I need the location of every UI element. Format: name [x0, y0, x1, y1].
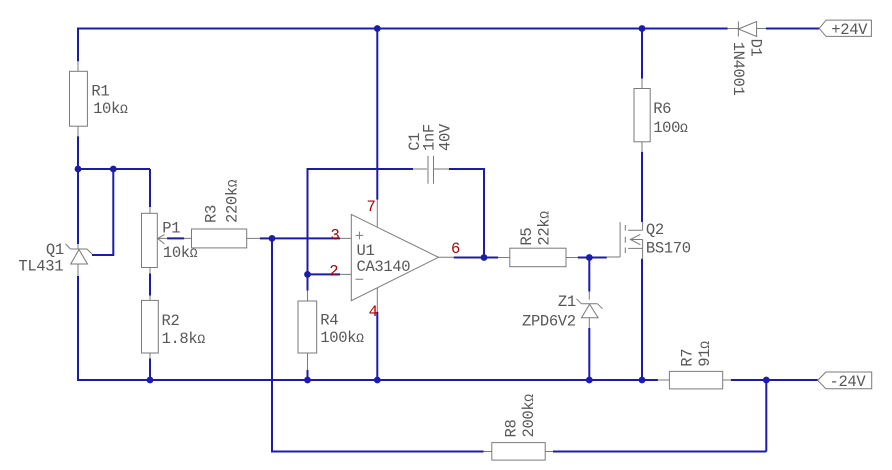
node pin4 bottom [374, 377, 381, 384]
svg-text:ZPD6V2: ZPD6V2 [522, 312, 576, 330]
node source bottom [639, 377, 646, 384]
svg-text:10kΩ: 10kΩ [163, 244, 198, 262]
svg-text:1N4001: 1N4001 [729, 42, 747, 96]
svg-text:Q1: Q1 [46, 241, 64, 259]
svg-text:-24V: -24V [830, 373, 867, 391]
node R3/pin3/R8 [269, 235, 276, 242]
wire source to bottom rail [641, 259, 643, 380]
node zener bottom [586, 377, 593, 384]
svg-text:R4: R4 [320, 311, 338, 329]
node R4 bottom [304, 377, 311, 384]
wire TL431 ref [92, 169, 113, 255]
wire output pin6 [454, 257, 498, 259]
svg-text:P1: P1 [162, 220, 180, 238]
resistor R2 [142, 296, 206, 359]
node R1/ref junction [75, 166, 82, 173]
svg-text:R2: R2 [162, 312, 180, 330]
svg-text:R6: R6 [653, 100, 671, 118]
resistor R3 [192, 179, 261, 248]
svg-text:R8: R8 [502, 420, 520, 438]
svg-text:6: 6 [451, 240, 460, 258]
wire left vertical top [77, 28, 79, 62]
wire R4 top [307, 274, 309, 290]
wire node to pin3 [272, 237, 340, 239]
capacitor C1 [406, 123, 455, 184]
svg-text:Z1: Z1 [558, 293, 576, 311]
svg-text:7: 7 [367, 198, 376, 216]
wire node row to P1 [78, 169, 150, 207]
wire R4 bottom [307, 370, 309, 380]
potentiometer P1 [142, 207, 198, 274]
svg-text:CA3140: CA3140 [357, 258, 411, 276]
node -24V junction [763, 377, 770, 384]
wire zener bottom [588, 328, 590, 380]
svg-text:Q2: Q2 [646, 221, 664, 239]
resistor R6 [634, 79, 688, 152]
svg-text:100Ω: 100Ω [653, 119, 688, 137]
svg-text:91Ω: 91Ω [696, 341, 714, 367]
svg-text:40V: 40V [437, 123, 455, 151]
wire bottom rail [77, 379, 818, 381]
svg-text:3: 3 [331, 226, 340, 244]
svg-text:R3: R3 [203, 205, 221, 223]
zener Z1 ZPD6V2 [522, 292, 603, 331]
resistor R4 [298, 291, 364, 371]
wire R6 to drain [641, 152, 643, 222]
svg-text:22kΩ: 22kΩ [536, 211, 554, 246]
svg-text:R1: R1 [91, 83, 109, 101]
node output junction [481, 254, 488, 261]
node ref tap [110, 166, 117, 173]
wire node to Q1 cathode [77, 169, 79, 244]
wire pin7 supply [376, 29, 378, 200]
terminal +24V [819, 20, 871, 39]
terminal -24V [818, 372, 872, 391]
svg-text:4: 4 [369, 303, 378, 321]
transistor Q2 BS170 [607, 221, 691, 259]
wire top rail [78, 28, 819, 30]
svg-text:D1: D1 [747, 39, 765, 57]
node R6 rail [639, 25, 646, 32]
wire feedback loop [308, 168, 485, 274]
svg-text:220kΩ: 220kΩ [224, 179, 242, 223]
svg-text:100kΩ: 100kΩ [320, 329, 364, 347]
node gate/zener [586, 254, 593, 261]
svg-text:TL431: TL431 [18, 258, 63, 276]
wire pin2 node [308, 273, 341, 275]
node R2 bottom [147, 377, 154, 384]
resistor R7 [658, 341, 731, 389]
transistor Q1 TL431 [18, 241, 92, 276]
wire pin4 to bottom rail [376, 312, 378, 380]
wire zener top [588, 258, 590, 292]
diode D1 1N4001 [728, 22, 766, 96]
svg-text:10kΩ: 10kΩ [93, 100, 128, 118]
svg-text:R5: R5 [518, 228, 536, 246]
wire R3 to node [260, 237, 272, 239]
wire P1 to R2 [149, 274, 151, 296]
wire node down to R8 [272, 238, 484, 451]
op-amp U1 [340, 200, 454, 312]
wire R8 to -24V node [553, 380, 766, 452]
resistor R1 [70, 61, 128, 136]
svg-text:2: 2 [329, 262, 338, 280]
node pin7 rail [374, 25, 381, 32]
svg-text:R7: R7 [679, 349, 697, 367]
svg-text:1.8kΩ: 1.8kΩ [162, 330, 206, 348]
wire R1 bottom to node row [77, 136, 79, 169]
wire R2 to bottom rail [149, 359, 151, 381]
wire Q1 anode to bottom rail [77, 276, 79, 381]
resistor R5 [498, 211, 578, 267]
wire R5 to gate node [578, 257, 607, 259]
svg-text:200kΩ: 200kΩ [520, 394, 538, 438]
svg-text:BS170: BS170 [646, 240, 691, 258]
wire R6 top [641, 29, 643, 79]
node pin2/R4 [304, 271, 311, 278]
resistor R8 [484, 394, 553, 460]
svg-text:+24V: +24V [831, 21, 868, 39]
